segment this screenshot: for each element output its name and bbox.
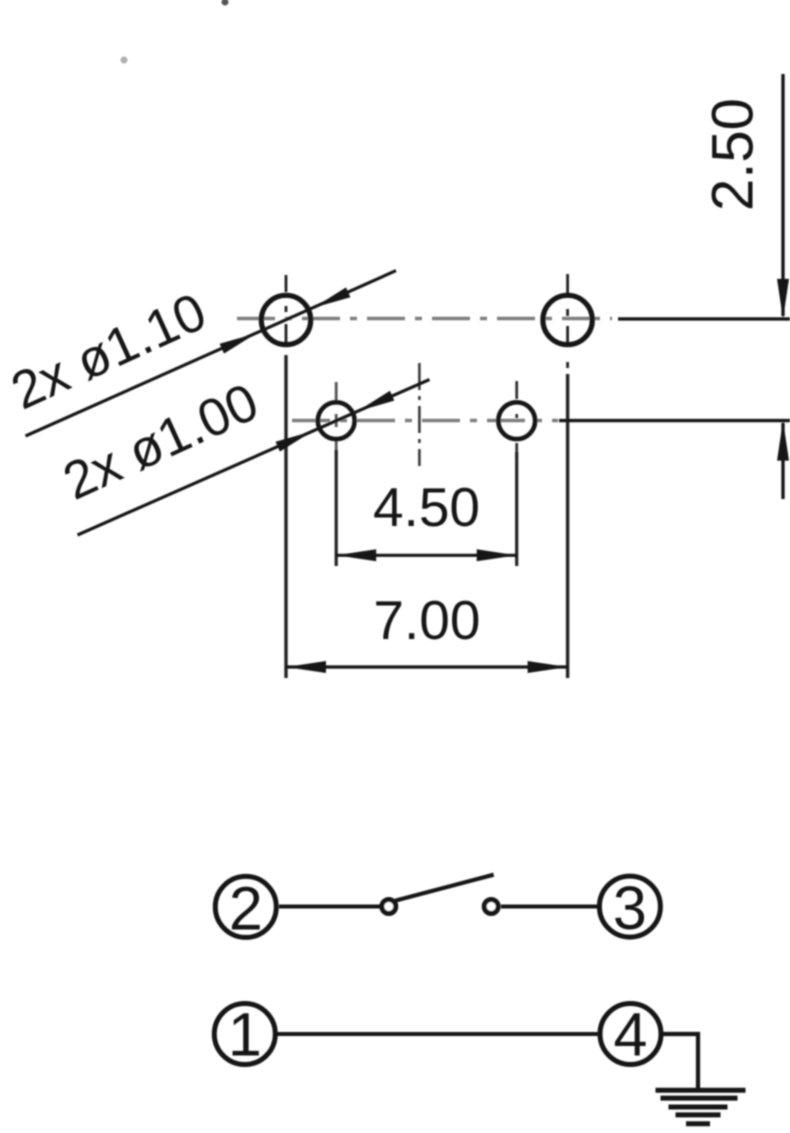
hole circle 3 (ø1.00 left) xyxy=(318,402,355,439)
dim line 4.50 xyxy=(336,554,517,557)
ground bar 2 xyxy=(661,1096,738,1101)
schematic pin 1 circle xyxy=(214,1004,275,1065)
dim 7.00 arrow left xyxy=(286,661,326,673)
switch contact left xyxy=(382,900,396,914)
leader 2 arrow upper-right xyxy=(355,391,394,416)
leader 2 arrow lower-left xyxy=(275,426,314,451)
reference line row1 to dim 2.50 xyxy=(618,317,790,320)
centerline hole2 vertical xyxy=(566,274,569,368)
hole circle 1 (ø1.10 left) xyxy=(261,295,310,344)
extension line 7.00 left xyxy=(284,355,287,678)
dim 7.00 arrow right xyxy=(528,661,568,673)
stray dot faint xyxy=(121,57,128,64)
centerline hole1 vertical xyxy=(285,275,288,347)
ground bar 3 xyxy=(669,1105,728,1110)
extension line 7.00 right xyxy=(566,374,569,678)
extension line 4.50 right xyxy=(515,452,518,566)
ground bar 4 xyxy=(676,1112,721,1117)
leader line dia 1.00 xyxy=(78,380,430,536)
svg-text:2: 2 xyxy=(229,875,263,943)
dim 4.50 arrow left xyxy=(336,549,376,561)
dim 2.50 arrow down xyxy=(777,279,789,319)
wire pin1 to pin4 xyxy=(276,1032,599,1036)
leader line dia 1.10 xyxy=(26,271,397,436)
ground bar 5 xyxy=(686,1121,710,1126)
schematic pin 2 circle xyxy=(215,876,276,937)
dim 2.50 arrow up xyxy=(777,421,789,461)
centerline row2 horizontal xyxy=(292,419,558,423)
svg-text:4.50: 4.50 xyxy=(373,476,480,538)
wire pin2 to contact xyxy=(279,905,381,909)
switch contact right xyxy=(484,900,498,914)
svg-text:7.00: 7.00 xyxy=(373,589,480,651)
leader 1 arrow upper-right xyxy=(311,287,350,312)
dim 4.50 arrow right xyxy=(477,549,517,561)
extension line 4.50 left xyxy=(335,450,338,566)
switch blade xyxy=(395,875,493,901)
schematic pin 3 circle xyxy=(599,876,660,937)
dim line 2.50 lower xyxy=(781,423,784,499)
wire pin4 to ground xyxy=(662,1034,698,1089)
dim line 2.50 upper xyxy=(781,74,784,316)
hole circle 2 (ø1.10 right) xyxy=(543,295,592,344)
svg-text:4: 4 xyxy=(614,1000,648,1068)
centerline row1 horizontal xyxy=(237,317,612,321)
centerline hole3 vertical xyxy=(335,382,338,452)
dim line 7.00 xyxy=(286,665,568,668)
svg-text:2.50: 2.50 xyxy=(701,98,766,211)
schematic pin 4 circle xyxy=(600,1004,661,1065)
hole circle 4 (ø1.00 right) xyxy=(498,402,535,439)
centerline hole4 vertical xyxy=(515,381,518,458)
ground bar 1 xyxy=(656,1088,746,1093)
wire contact to pin3 xyxy=(501,905,597,909)
reference line row2 to dim 2.50 xyxy=(559,419,790,422)
svg-text:1: 1 xyxy=(228,1000,262,1068)
centerline axis vertical xyxy=(418,363,421,466)
svg-text:3: 3 xyxy=(613,874,647,942)
stray mark top xyxy=(222,0,229,6)
leader 1 arrow lower-left xyxy=(220,328,259,353)
